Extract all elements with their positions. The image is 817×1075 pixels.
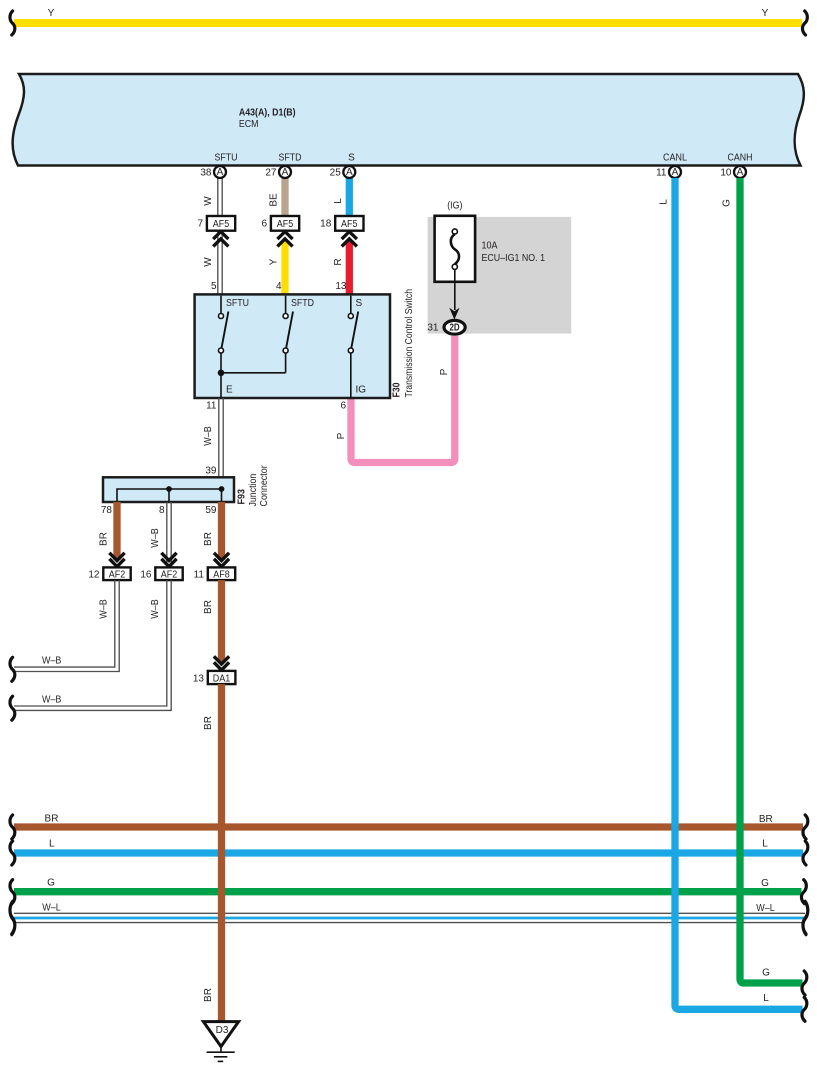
bus BR horizontal: [14, 823, 803, 830]
svg-text:S: S: [356, 298, 363, 309]
svg-text:G: G: [762, 968, 770, 979]
junction dot E: [218, 370, 225, 377]
svg-text:IG: IG: [356, 385, 367, 396]
svg-text:25: 25: [330, 168, 342, 179]
connector 13 DA1: [193, 671, 236, 684]
svg-text:AF8: AF8: [213, 570, 230, 581]
svg-text:W–B: W–B: [150, 528, 161, 548]
wire Y from connector 6 AF5 to F30 pin 4: [281, 241, 288, 294]
break symbol G bus left: [10, 880, 15, 904]
connector 16 AF2: [140, 567, 182, 580]
svg-text:A43(A), D1(B): A43(A), D1(B): [239, 108, 296, 119]
chevron below connector 6 AF5: [277, 232, 292, 247]
wire BR from connector 11 AF8 to connector 13 DA1: [218, 580, 225, 663]
junction dot pin 59 branch: [219, 486, 225, 492]
svg-text:P: P: [439, 368, 450, 375]
wire W-B from F30 pin 11 to F93 pin 39: [219, 398, 223, 489]
svg-text:W–B: W–B: [99, 599, 110, 619]
svg-text:SFTD: SFTD: [279, 153, 302, 164]
ECM connector box A43(A), D1(B): [13, 74, 804, 166]
chevron below connector 7 AF5: [213, 232, 228, 247]
svg-text:5: 5: [211, 281, 217, 292]
svg-text:CANH: CANH: [728, 153, 753, 164]
break symbol left end of wire Y: [10, 11, 15, 35]
fuse box: [435, 216, 476, 282]
svg-text:A: A: [346, 167, 353, 178]
svg-text:CANL: CANL: [663, 153, 687, 164]
connector 31 (2D): [427, 320, 465, 334]
svg-text:BE: BE: [269, 193, 280, 207]
wire from fuse to connector 2D: [454, 269, 456, 310]
svg-text:AF2: AF2: [109, 570, 126, 581]
svg-text:W–B: W–B: [42, 656, 62, 667]
svg-text:BR: BR: [203, 532, 214, 546]
svg-text:2D: 2D: [450, 322, 460, 333]
break symbol left W-B upper: [10, 657, 15, 681]
svg-text:Y: Y: [269, 258, 280, 265]
svg-text:W–L: W–L: [42, 903, 61, 914]
svg-text:W–B: W–B: [42, 695, 62, 706]
svg-text:A: A: [217, 167, 224, 178]
svg-text:AF5: AF5: [341, 219, 358, 230]
junction connector F93 box: [103, 477, 234, 502]
svg-text:Y: Y: [48, 8, 55, 19]
connector 18 AF5: [320, 216, 363, 231]
wire P from connector 2D to F30 pin 6: [351, 336, 455, 463]
svg-text:BR: BR: [99, 532, 110, 546]
break symbol G bus right: [801, 880, 806, 904]
wire Y top bus: [14, 19, 802, 27]
svg-text:38: 38: [200, 168, 212, 179]
svg-text:11: 11: [206, 401, 217, 412]
svg-text:L: L: [762, 839, 768, 850]
svg-text:G: G: [761, 878, 769, 889]
break symbol right end of wire Y: [802, 11, 807, 35]
bus G horizontal: [14, 888, 802, 895]
svg-text:W–B: W–B: [150, 599, 161, 619]
svg-text:Transmission Control Switch: Transmission Control Switch: [404, 289, 415, 398]
svg-text:AF2: AF2: [161, 570, 178, 581]
break symbol BR bus right: [803, 815, 808, 839]
svg-text:ECU–IG1 NO. 1: ECU–IG1 NO. 1: [482, 253, 546, 264]
wire L from pin 25 to connector 18 AF5: [346, 178, 353, 216]
bus L horizontal: [14, 849, 803, 856]
svg-text:Junction: Junction: [248, 474, 259, 507]
chevron above connector 11 AF8: [214, 553, 229, 567]
wire BR from F93 pin 78 to connector 12 AF2: [113, 502, 120, 560]
wire G CANH vertical to bottom right: [740, 178, 803, 983]
svg-text:7: 7: [197, 219, 203, 230]
pin 25 circle A: [330, 166, 356, 179]
fuse element 10A: [451, 229, 459, 270]
wire W-B from connector 16 AF2 to left break: [14, 580, 171, 710]
svg-text:G: G: [722, 199, 733, 207]
svg-text:W: W: [203, 257, 214, 267]
svg-text:AF5: AF5: [213, 219, 230, 230]
break symbol L bus right: [803, 841, 808, 865]
ground D3: [203, 1022, 238, 1062]
svg-text:78: 78: [101, 505, 113, 516]
svg-text:L: L: [49, 839, 55, 850]
svg-text:L: L: [659, 199, 670, 205]
switch SFTD contact: [283, 296, 293, 373]
svg-text:39: 39: [205, 466, 217, 477]
svg-text:A: A: [737, 167, 744, 178]
svg-text:L: L: [333, 198, 344, 204]
svg-text:13: 13: [335, 281, 347, 292]
svg-text:BR: BR: [759, 814, 773, 825]
arrow into connector 2D: [449, 308, 459, 320]
bus W-L horizontal: [14, 913, 805, 922]
connector 7 AF5: [197, 216, 235, 231]
svg-text:SFTD: SFTD: [291, 298, 314, 309]
svg-text:A: A: [672, 167, 679, 178]
break symbol L bus left: [10, 841, 15, 865]
svg-text:BR: BR: [45, 814, 59, 825]
svg-text:L: L: [763, 993, 769, 1004]
connector 6 AF5: [261, 216, 299, 231]
chevron above connector 13 DA1: [214, 656, 229, 670]
svg-text:P: P: [336, 432, 347, 439]
svg-text:27: 27: [265, 168, 277, 179]
svg-text:59: 59: [205, 505, 217, 516]
switch SFTU contact: [219, 296, 229, 373]
svg-text:BR: BR: [203, 716, 214, 730]
break symbol L bottom right: [802, 997, 807, 1021]
svg-text:AF5: AF5: [277, 219, 294, 230]
svg-text:F93: F93: [237, 489, 248, 505]
pin 11 circle A: [656, 166, 681, 179]
svg-text:BR: BR: [203, 988, 214, 1002]
svg-text:31: 31: [427, 323, 439, 334]
transmission control switch F30 box: [195, 294, 390, 398]
wire BR from DA1 to ground D3: [218, 684, 225, 1021]
svg-text:BR: BR: [203, 600, 214, 614]
svg-text:16: 16: [140, 570, 152, 581]
wire E link inside F30: [221, 373, 286, 398]
wire W-B from connector 12 AF2 to left break: [14, 580, 119, 671]
svg-text:W–L: W–L: [756, 903, 775, 914]
connector 12 AF2: [88, 567, 130, 580]
svg-text:10: 10: [720, 168, 732, 179]
wire W from pin 38 to connector 7 AF5: [218, 178, 222, 216]
wire W from connector 7 AF5 to F30 pin 5: [218, 231, 222, 295]
svg-text:10A: 10A: [482, 241, 498, 252]
pin 27 circle A: [265, 166, 291, 179]
break symbol W-L bus right: [803, 902, 808, 934]
pin 38 circle A: [200, 166, 226, 179]
junction dot pin 8 branch: [166, 486, 172, 492]
svg-text:(IG): (IG): [447, 201, 462, 212]
connector 11 AF8: [194, 567, 236, 580]
break symbol left W-B lower: [10, 696, 15, 720]
wire L CANL vertical to bottom right: [675, 178, 803, 1009]
switch S contact: [348, 296, 358, 398]
svg-text:6: 6: [261, 219, 267, 230]
svg-text:D3: D3: [216, 1025, 229, 1036]
svg-text:A: A: [282, 167, 289, 178]
wire W-B from F93 pin 8 to connector 16 AF2: [167, 502, 171, 567]
chevron below connector 18 AF5: [342, 232, 357, 247]
svg-text:18: 18: [320, 219, 332, 230]
F93 internal bus wire: [117, 489, 222, 501]
svg-text:R: R: [333, 258, 344, 265]
relay block gray box: [428, 217, 572, 334]
svg-text:8: 8: [159, 505, 165, 516]
break symbol W-L bus left: [10, 902, 15, 934]
wire BR from F93 pin 59 to connector 11 AF8: [218, 502, 225, 560]
svg-text:ECM: ECM: [239, 119, 259, 130]
svg-text:12: 12: [88, 570, 100, 581]
svg-text:13: 13: [193, 673, 205, 684]
svg-text:SFTU: SFTU: [215, 153, 238, 164]
svg-text:W: W: [203, 196, 214, 206]
break symbol BR bus left: [10, 815, 15, 839]
svg-text:4: 4: [276, 281, 282, 292]
svg-text:SFTU: SFTU: [226, 298, 249, 309]
svg-text:G: G: [47, 878, 55, 889]
svg-text:11: 11: [656, 168, 667, 179]
svg-text:11: 11: [194, 570, 205, 581]
svg-text:Y: Y: [762, 8, 769, 19]
pin 10 circle A: [720, 166, 746, 179]
svg-text:S: S: [348, 153, 355, 164]
break symbol G bottom right: [802, 971, 807, 995]
svg-text:Connector: Connector: [259, 465, 270, 507]
wire R from connector 18 AF5 to F30 pin 13: [346, 241, 353, 294]
svg-text:DA1: DA1: [213, 673, 231, 684]
svg-text:F30: F30: [392, 382, 403, 397]
wire BE from pin 27 to connector 6 AF5: [281, 178, 288, 216]
svg-text:E: E: [226, 385, 233, 396]
chevron above connector 16 AF2: [161, 553, 176, 567]
svg-text:6: 6: [340, 401, 346, 412]
chevron above connector 12 AF2: [109, 553, 124, 567]
svg-text:W–B: W–B: [203, 426, 214, 446]
